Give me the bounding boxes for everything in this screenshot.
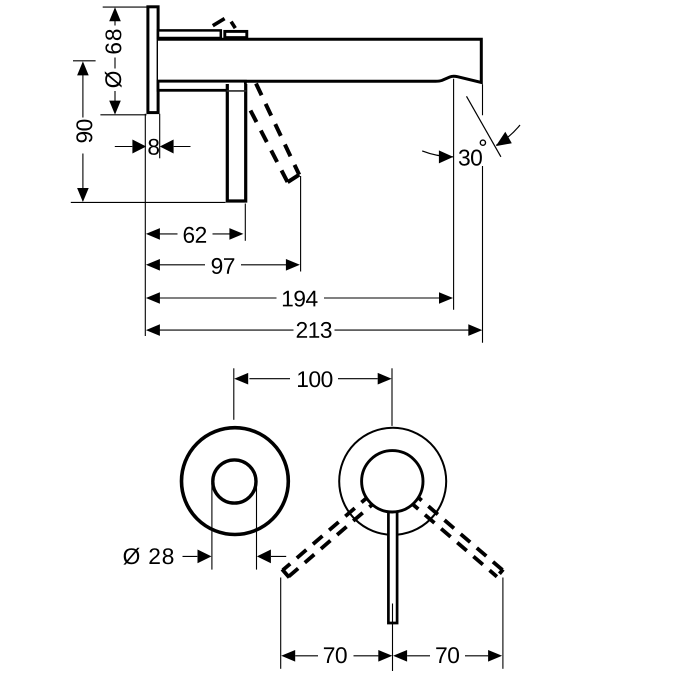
dim lines 70 <box>295 655 488 657</box>
arrows 62 <box>146 228 160 240</box>
arrows diam28 <box>198 550 212 564</box>
dashed lever swung (side view) <box>251 84 300 183</box>
ext line diam68 top <box>103 6 148 8</box>
left escutcheon outer circle <box>182 428 289 535</box>
arrows 70 <box>281 650 295 662</box>
diam28 tails <box>183 555 287 557</box>
label diam symbol rotated <box>105 71 122 87</box>
lever tip dash (side view) <box>288 175 300 183</box>
arrows 213 <box>146 324 160 336</box>
label 8 <box>148 139 159 155</box>
30deg reference line <box>467 96 501 157</box>
ext lines 100 <box>234 368 392 426</box>
left inner circle <box>213 460 256 503</box>
aerator ext line <box>453 79 455 310</box>
arrows 194 <box>146 292 160 304</box>
tick 90 top <box>73 60 96 62</box>
dim line 97 <box>160 264 287 266</box>
handle rod (side view) <box>227 84 245 201</box>
dashed lever left (front view) <box>282 491 380 577</box>
spout body <box>158 39 481 82</box>
label 30 <box>459 150 482 166</box>
label 213 <box>297 322 332 338</box>
arrow 30 right <box>496 132 512 146</box>
dim line 100 <box>249 378 377 380</box>
ext line diam68 bottom <box>100 114 146 116</box>
arrows 8 <box>132 140 146 154</box>
30deg arc right tail <box>496 125 520 145</box>
degree symbol <box>480 140 485 145</box>
handle rod (front view) <box>388 505 397 623</box>
rod center ext <box>392 604 394 672</box>
label 62 <box>184 227 206 243</box>
label 97 <box>212 258 235 274</box>
right escutcheon outer circle <box>339 428 446 535</box>
lower connector <box>158 81 245 90</box>
arrows 90 <box>77 61 89 75</box>
cartridge cap <box>225 31 247 37</box>
arrows diam68 <box>109 7 121 21</box>
dimension ext lines (side view) <box>71 7 483 343</box>
label 70 left <box>324 647 347 663</box>
ext line 90 bottom <box>71 201 226 203</box>
wall ext line <box>144 114 146 336</box>
label 100 <box>298 371 332 387</box>
30deg arc left tail <box>422 151 453 157</box>
dim line 194 <box>160 297 440 299</box>
diam28 ext lines <box>211 483 213 570</box>
spout tip ext line <box>482 84 484 343</box>
plate-right ext line <box>159 114 161 159</box>
connector bottom edge trace across rod <box>227 90 247 92</box>
wall plate (side view) <box>148 7 158 113</box>
dashed lever open position (top dashes) <box>213 19 225 26</box>
70 ext lines <box>280 578 282 669</box>
dim 8 tails <box>115 146 191 148</box>
dim line 213 <box>160 329 469 331</box>
label 68 rotated <box>105 30 121 54</box>
arrows 97 <box>146 259 160 271</box>
dim line diam68 <box>114 9 116 113</box>
arrow 30 left <box>439 150 453 163</box>
arrows 100 <box>234 373 248 385</box>
label diam 28 <box>123 548 173 565</box>
lever tip ext line <box>300 176 302 272</box>
upper supply pipe <box>158 30 221 38</box>
dim line 62 <box>160 233 230 235</box>
ext+dim lines bottom <box>183 483 503 671</box>
dashed lever right (front view) <box>407 492 504 577</box>
label 194 <box>283 291 318 307</box>
dim line 90 <box>82 63 84 201</box>
rod ext line <box>244 204 246 241</box>
right hub inner circle <box>362 451 423 512</box>
label 70 right <box>436 647 459 663</box>
label 90 rotated <box>76 120 92 143</box>
